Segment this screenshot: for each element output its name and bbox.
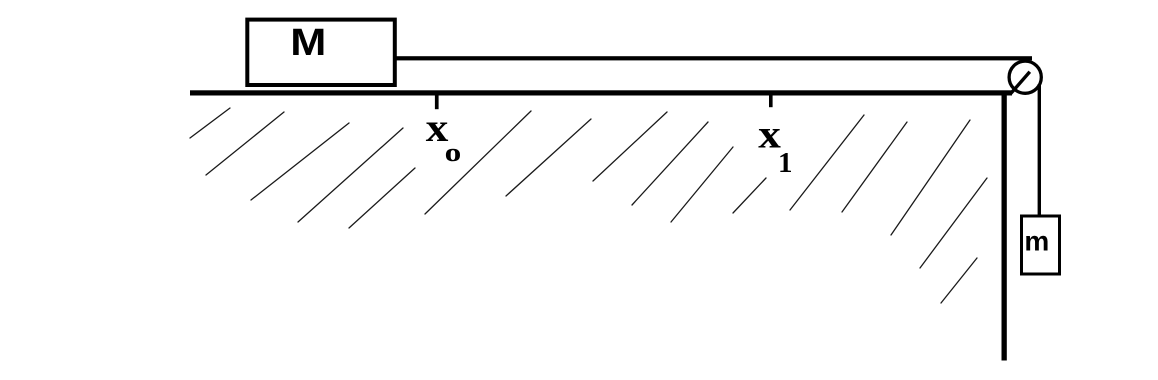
svg-text:m: m [1024,225,1049,256]
svg-text:o: o [445,139,462,168]
svg-text:1: 1 [778,147,793,179]
svg-text:M: M [290,21,326,64]
